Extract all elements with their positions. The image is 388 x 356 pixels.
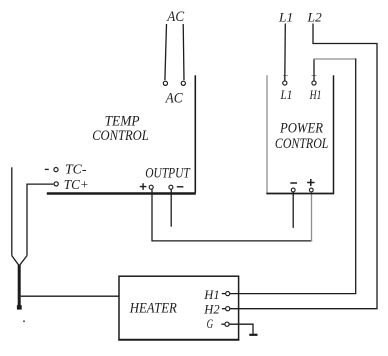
wire power control H1 up [313, 59, 315, 81]
tick H1 [222, 293, 225, 295]
svg-text:AC: AC [165, 91, 184, 107]
power control box top edge ticks [283, 75, 317, 77]
svg-text:G: G [207, 316, 214, 331]
power control box right edge [333, 75, 335, 193]
svg-text:CONTROL: CONTROL [275, 136, 329, 152]
tick H2 [222, 308, 225, 310]
heater box [119, 276, 239, 339]
terminal power control L1 [283, 81, 287, 85]
svg-text:L1: L1 [278, 9, 293, 24]
wire OUTPUT- (dangling) [170, 189, 172, 226]
terminal power control - [291, 188, 295, 192]
label - (output) [177, 186, 184, 188]
svg-text:L2: L2 [306, 9, 322, 24]
svg-text:CONTROL: CONTROL [92, 128, 149, 144]
svg-text:AC: AC [166, 9, 185, 25]
svg-text:H2: H2 [203, 302, 220, 317]
power control box bottom edge [266, 193, 334, 195]
terminal heater G [225, 322, 229, 326]
wire L1 lead [284, 24, 287, 81]
svg-text:POWER: POWER [279, 121, 323, 137]
svg-text:H1: H1 [203, 287, 219, 302]
svg-text:L1: L1 [280, 87, 293, 102]
temp control box (right + bottom edges) [194, 75, 196, 193]
terminal TC- [54, 168, 58, 172]
terminal heater H1 [226, 292, 230, 296]
thermocouple probe [12, 256, 27, 266]
ground [249, 334, 257, 336]
terminal power control H1 [312, 81, 316, 85]
svg-text:TC+: TC+ [64, 178, 89, 193]
label + (output) [140, 183, 147, 190]
wire junction to power control + terminal [311, 192, 313, 241]
wire OUTPUT+ to power control + [152, 189, 312, 241]
wire power control H1 to heater H1 (horizontal run) [313, 58, 355, 60]
power control box left edge [266, 75, 268, 193]
wire probe to heater [21, 295, 119, 297]
svg-text:H1: H1 [309, 87, 322, 102]
terminal heater H2 [226, 307, 230, 311]
wire power control H1 to heater H1 [230, 58, 356, 293]
terminal AC1 [163, 81, 167, 85]
wire power control - (dangling) [292, 192, 294, 228]
terminal AC2 [181, 81, 185, 85]
wire TC- lead (left vertical) [11, 167, 13, 255]
terminal OUTPUT - [169, 185, 173, 189]
wire TC+ to thermocouple [27, 184, 53, 256]
label - (power control) [290, 182, 297, 184]
svg-text:TC-: TC- [65, 163, 87, 178]
terminal power control + [309, 188, 313, 192]
label + (power control) [307, 179, 314, 186]
wire stub at TC- [45, 168, 49, 170]
wire L2 to heater H2 [230, 24, 377, 309]
tick G [221, 323, 224, 325]
svg-text:HEATER: HEATER [129, 301, 177, 317]
wire AC lead 2 [182, 24, 185, 80]
dot (scan speck) [23, 320, 25, 322]
terminal OUTPUT + [149, 185, 153, 189]
wire G to ground [229, 324, 253, 334]
terminal TC+ [54, 182, 58, 186]
wire AC lead 1 [165, 24, 167, 80]
svg-text:OUTPUT: OUTPUT [145, 166, 191, 182]
